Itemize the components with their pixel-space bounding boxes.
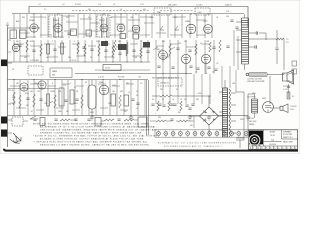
transformer T2 1st IF xyxy=(49,15,62,37)
resistor R15 xyxy=(169,44,171,56)
wire transformer leads xyxy=(219,80,236,133)
capacitor C44 xyxy=(191,104,194,106)
svg-text:20: 20 xyxy=(136,95,138,97)
svg-text:OSC: OSC xyxy=(198,12,203,14)
lamp P2 xyxy=(164,132,168,136)
transformer T3 2nd IF xyxy=(97,15,110,37)
svg-text:RESISTORS 1/2 WATT UNLESS NOTE: RESISTORS 1/2 WATT UNLESS NOTED. CAPACIT… xyxy=(40,144,150,147)
coil L3 end dot xyxy=(246,73,249,76)
capacitor C16 xyxy=(176,48,179,50)
trimmer box TC3 xyxy=(120,34,126,39)
capacitor C12 xyxy=(104,50,107,52)
svg-text:.02: .02 xyxy=(128,92,130,94)
wire jogs top band xyxy=(20,16,206,37)
lamp P12 xyxy=(237,132,241,136)
coil L3 horizontal winding xyxy=(249,73,267,76)
capacitor C23 xyxy=(131,99,134,101)
lamp P6 xyxy=(193,132,197,136)
svg-text:12A8 GT: 12A8 GT xyxy=(225,4,232,7)
lamp P3 xyxy=(171,132,175,136)
capacitor C14 xyxy=(132,50,135,52)
resistor R42 xyxy=(180,101,182,111)
svg-text:R-17 1 MEG: R-17 1 MEG xyxy=(30,60,40,62)
svg-text:680: 680 xyxy=(162,41,165,43)
bottom strip box right xyxy=(138,117,147,127)
svg-text:100: 100 xyxy=(190,125,193,127)
svg-text:X: X xyxy=(291,148,292,150)
wire power top xyxy=(152,95,211,97)
capacitor C1 xyxy=(18,45,21,47)
lamp P4 xyxy=(178,132,182,136)
svg-text:.005: .005 xyxy=(37,91,40,93)
capacitor C9 xyxy=(32,50,35,52)
svg-text:.05: .05 xyxy=(216,63,218,65)
wire heater bus xyxy=(12,13,244,15)
resistor R32 boxed xyxy=(40,118,45,126)
svg-text:V. COIL: V. COIL xyxy=(283,89,288,91)
capacitor C19 xyxy=(39,99,42,101)
svg-text:.05: .05 xyxy=(172,99,174,101)
dark component block C xyxy=(101,41,108,46)
capacitor C10 xyxy=(53,49,56,51)
trimmer box TC4 xyxy=(133,34,139,39)
wire verticals to power section xyxy=(222,66,236,92)
loop coil box L1b xyxy=(20,30,27,39)
trimmer box TC2 xyxy=(86,30,92,36)
svg-text:* ALIGN IF 455 KC. TRIMMERS FO: * ALIGN IF 455 KC. TRIMMERS FOR MAX OUTP… xyxy=(33,135,158,138)
line cord xyxy=(236,92,244,148)
svg-text:.01: .01 xyxy=(216,17,218,19)
resistor R16 xyxy=(195,44,197,55)
svg-text:.005: .005 xyxy=(58,91,61,93)
svg-text:150: 150 xyxy=(112,91,115,93)
wire bottom right drops xyxy=(236,116,248,139)
wire vertical drops mid row xyxy=(14,40,214,62)
capacitor C48 xyxy=(207,67,210,69)
svg-text:C-22 .05: C-22 .05 xyxy=(98,77,104,79)
ground lug bottom xyxy=(1,130,7,137)
wire coil leads xyxy=(236,14,245,70)
loop coil box L1a xyxy=(10,30,17,39)
resistor R7 xyxy=(40,44,42,56)
svg-text:USE ISOLATION TRANSFORMER. REA: USE ISOLATION TRANSFORMER. READINGS TAKE… xyxy=(40,128,157,131)
wire y70 run xyxy=(95,69,150,71)
svg-text:.01: .01 xyxy=(120,9,122,11)
wire lug stubs xyxy=(7,63,12,133)
capacitor C11 xyxy=(90,49,93,51)
capacitor C25 xyxy=(188,108,191,110)
wave switch box xyxy=(50,68,72,78)
capacitor C49 xyxy=(188,50,191,52)
lamp P1 xyxy=(157,132,161,136)
dial cord dashed run xyxy=(72,10,194,12)
capacitor C43 xyxy=(185,105,188,107)
svg-text:.002: .002 xyxy=(232,83,235,85)
svg-text:.05: .05 xyxy=(195,72,197,74)
tube V1 12SA7 xyxy=(30,24,38,32)
tube V9 xyxy=(159,51,168,60)
capacitor C47 xyxy=(189,66,192,68)
capacitor C3 xyxy=(82,47,85,49)
resistor R19 xyxy=(33,94,35,107)
resistor R9 xyxy=(61,43,64,54)
svg-text:TO SPKR: TO SPKR xyxy=(290,106,297,108)
dark component block B xyxy=(143,42,150,48)
svg-text:H: H xyxy=(266,148,267,150)
svg-text:.05: .05 xyxy=(46,57,48,59)
diode D3 xyxy=(203,119,206,122)
capacitor C53 xyxy=(235,27,238,29)
capacitor C28 xyxy=(170,119,173,121)
lamp P10 xyxy=(222,132,226,136)
selector box mid xyxy=(103,65,121,71)
svg-text:L-12 FIELD 450 OHM: L-12 FIELD 450 OHM xyxy=(247,78,262,80)
resistor R22 boxed tall xyxy=(59,88,64,106)
capacitor C24 xyxy=(136,103,139,105)
wire main lower bus xyxy=(8,115,249,117)
resistor R11 xyxy=(98,44,100,56)
wire heater chain rails xyxy=(155,130,248,137)
svg-text:USE EXACT DUPLICATE: USE EXACT DUPLICATE xyxy=(247,80,265,83)
capacitor C31 xyxy=(54,119,57,121)
wire bridge leads xyxy=(190,96,223,136)
svg-text:.05: .05 xyxy=(136,91,138,93)
svg-text:680: 680 xyxy=(12,97,15,99)
svg-text:100: 100 xyxy=(16,83,19,85)
capacitor C52 xyxy=(230,20,233,22)
svg-text:SILVERTONE: SILVERTONE xyxy=(252,145,261,147)
wire coil L3 lead xyxy=(267,74,268,76)
svg-text:40-20: 40-20 xyxy=(90,112,94,114)
resistor R26 xyxy=(119,95,121,108)
gang capacitor xyxy=(160,26,179,30)
capacitor C40 xyxy=(151,104,154,106)
title block dividers xyxy=(248,130,297,146)
resistor R18 xyxy=(19,95,21,108)
terminal strip marks xyxy=(292,61,297,66)
tube V7 12K7 xyxy=(204,25,213,34)
resistor R17 xyxy=(13,92,15,105)
notes arrow doodle xyxy=(10,133,21,143)
svg-text:SPEAKER CONNECTED. VOLTAGES MA: SPEAKER CONNECTED. VOLTAGES MAY VARY WID… xyxy=(40,131,143,134)
resistor R13 xyxy=(126,44,128,56)
capacitor C26 xyxy=(158,104,161,106)
svg-text:220: 220 xyxy=(160,89,163,91)
speaker PM xyxy=(283,70,294,84)
wire bottom margin bar xyxy=(4,149,298,151)
capacitor C17 xyxy=(212,47,215,49)
wire field coil right xyxy=(288,84,290,98)
resistor R4 xyxy=(126,42,128,54)
resistor R24 xyxy=(81,95,83,108)
tube V8 xyxy=(12,44,20,52)
svg-text:1 MEG: 1 MEG xyxy=(50,91,56,93)
ground symbols on lower bus xyxy=(90,116,250,121)
capacitor C45 xyxy=(157,66,160,68)
svg-text:FOR SEARS ROEBUCK AND CO. CHA: FOR SEARS ROEBUCK AND CO. CHASSIS 101.5 xyxy=(164,145,222,148)
capacitor C7 xyxy=(248,46,255,48)
svg-text:ALL 0.1: ALL 0.1 xyxy=(249,117,254,120)
wire right upper xyxy=(276,58,278,64)
svg-text:C-15 .05: C-15 .05 xyxy=(70,60,76,62)
transformer T4 secondary bumps xyxy=(229,89,230,137)
tube V11 xyxy=(201,54,210,63)
svg-text:AT GANG CLOSED POSITION. OUTPU: AT GANG CLOSED POSITION. OUTPUT READINGS… xyxy=(40,138,145,141)
tube V6 12A8 xyxy=(186,24,196,34)
svg-text:.05: .05 xyxy=(44,17,46,19)
svg-text:1.5: 1.5 xyxy=(44,9,46,11)
svg-text:100: 100 xyxy=(16,41,19,43)
diode D4 xyxy=(213,119,216,122)
capacitor C29 xyxy=(287,86,290,88)
svg-text:SCHEMATIC NO. 257.1234 SIX TU: SCHEMATIC NO. 257.1234 SIX TUBE SUPERHET… xyxy=(158,142,237,145)
resistor R20 boxed xyxy=(47,94,50,106)
capacitor C6 padder xyxy=(248,33,266,40)
svg-text:.1: .1 xyxy=(70,83,71,85)
ground lug top xyxy=(1,60,7,67)
capacitor C18 xyxy=(26,98,29,100)
capacitor C21 xyxy=(75,99,78,101)
svg-text:220: 220 xyxy=(66,17,69,19)
dark component block A xyxy=(118,44,127,50)
capacitor C32 xyxy=(74,119,77,121)
wire lamp feed xyxy=(150,116,194,129)
capacitor C8 xyxy=(275,48,278,50)
wire x277 xyxy=(276,30,278,47)
tube V3 12SQ7 xyxy=(100,24,108,32)
svg-text:40: 40 xyxy=(257,148,259,150)
resistor R30 xyxy=(178,120,188,122)
capacitor C5 xyxy=(226,46,229,48)
resistor R25 boxed xyxy=(111,94,116,106)
resistor R31 boxed xyxy=(287,92,290,99)
switch SW1 xyxy=(30,116,38,119)
tube V12 xyxy=(20,83,28,91)
tube V10 xyxy=(181,54,190,63)
wire drop right xyxy=(283,39,285,70)
svg-text:5: 5 xyxy=(52,41,53,43)
left boundary ticks xyxy=(8,40,12,104)
switch contacts xyxy=(153,47,175,52)
tube V13 xyxy=(38,81,46,89)
resistor R6 xyxy=(248,38,276,40)
wire bottom strip joins xyxy=(23,120,138,121)
wire speaker feed xyxy=(268,73,284,75)
rectifier bridge diamond xyxy=(200,107,219,125)
resistor R14 xyxy=(140,48,142,58)
resistor R29 xyxy=(156,120,166,122)
tube V15 rectifier xyxy=(263,102,274,113)
wire mid bus xyxy=(75,73,192,75)
capacitor C42 xyxy=(173,104,176,106)
svg-text:.25: .25 xyxy=(140,41,142,43)
wire AVC bus xyxy=(8,61,151,63)
svg-text:115V AC-DC: 115V AC-DC xyxy=(160,82,170,85)
svg-text:MFD 200V: MFD 200V xyxy=(249,121,257,123)
capacitor C33 xyxy=(87,119,90,121)
resistor R12 xyxy=(112,45,114,57)
resistor R34 boxed xyxy=(95,118,101,127)
svg-text:T-6 OUTPUT: T-6 OUTPUT xyxy=(247,97,256,99)
svg-text:T-2 OSC: T-2 OSC xyxy=(196,5,203,7)
resistor R10 xyxy=(84,44,86,56)
tube V2 12SK7 xyxy=(54,24,62,32)
wire vertical risers mid-right xyxy=(156,74,210,104)
transformer T5 output xyxy=(252,99,258,113)
trimmer box TC1 xyxy=(71,29,77,36)
capacitor C34 xyxy=(117,119,120,121)
tube V4 xyxy=(117,24,125,32)
svg-text:C-8: C-8 xyxy=(98,4,101,6)
dashed label box power xyxy=(158,78,182,86)
svg-text:40: 40 xyxy=(85,82,87,84)
wire jogs audio band xyxy=(10,84,134,110)
svg-text:.002: .002 xyxy=(138,77,141,79)
wire field drop xyxy=(269,76,271,104)
resistor R43 xyxy=(209,42,211,52)
svg-text:.002: .002 xyxy=(134,57,137,59)
lamp P9 xyxy=(215,132,219,136)
resistor R5 xyxy=(219,40,221,52)
svg-text:R-9 470K: R-9 470K xyxy=(118,77,125,79)
wire coil risers xyxy=(234,30,238,70)
lamp P8 xyxy=(208,132,212,136)
transformer T4 power xyxy=(223,88,228,137)
capacitor C20 xyxy=(64,100,67,102)
svg-text:.1: .1 xyxy=(74,41,75,43)
svg-text:10: 10 xyxy=(88,17,90,19)
lamp P13 xyxy=(244,132,248,136)
svg-text:DIAL LIGHT: DIAL LIGHT xyxy=(168,4,178,7)
resistor R36 xyxy=(124,119,134,121)
dial lamp box xyxy=(154,8,171,15)
wire to output tube xyxy=(270,107,280,109)
svg-text:RADIO CORP.: RADIO CORP. xyxy=(283,141,294,144)
svg-text:10: 10 xyxy=(74,87,76,89)
wire B+ top bus xyxy=(29,7,248,29)
svg-text:L-4: L-4 xyxy=(62,4,64,6)
capacitor C30 xyxy=(33,119,36,121)
wire left boundary xyxy=(7,28,9,147)
resistor R27 boxed xyxy=(124,95,129,106)
svg-text:PAPER: PAPER xyxy=(249,123,255,126)
wire vertical drops top row xyxy=(14,14,212,38)
capacitor C41 xyxy=(162,105,165,107)
wire vertical drops lower-left xyxy=(14,80,145,115)
wire tube drops xyxy=(163,60,206,74)
wire audio sub bus xyxy=(8,88,59,90)
wire output leads xyxy=(248,94,255,118)
svg-text:+: + xyxy=(166,113,167,115)
speaker plug horn xyxy=(280,104,288,113)
capacitor C46 xyxy=(171,67,174,69)
svg-text:12SK7: 12SK7 xyxy=(53,20,60,22)
svg-text:C-2: C-2 xyxy=(38,4,41,6)
lamp P5 xyxy=(186,132,190,136)
svg-text:R-2 47K: R-2 47K xyxy=(75,4,82,6)
svg-text:220: 220 xyxy=(68,57,71,59)
dial cord dashed drops xyxy=(80,11,140,16)
svg-text:.05: .05 xyxy=(136,108,138,110)
svg-text:.02: .02 xyxy=(11,90,13,92)
resistor R3 xyxy=(114,40,116,52)
lamp P11 xyxy=(230,132,234,136)
svg-text:WAVE: WAVE xyxy=(52,70,58,73)
svg-text:6T-10: 6T-10 xyxy=(270,135,274,137)
svg-text:20: 20 xyxy=(162,99,164,101)
svg-text:.005: .005 xyxy=(206,41,209,43)
ground lug mid xyxy=(1,117,7,124)
svg-text:* 4.7: * 4.7 xyxy=(30,111,33,113)
capacitor C50 xyxy=(196,68,199,70)
tube V5 xyxy=(132,25,140,33)
logo black square xyxy=(249,131,263,147)
wire audio stage bus xyxy=(8,79,149,81)
capacitor C15 xyxy=(146,51,149,53)
svg-text:+: + xyxy=(155,113,156,115)
svg-text:12SA7: 12SA7 xyxy=(29,19,36,22)
svg-text:NO. 257.1234: NO. 257.1234 xyxy=(283,134,292,136)
svg-text:10: 10 xyxy=(176,89,178,91)
svg-text:12SQ7: 12SQ7 xyxy=(99,20,106,22)
svg-text:40: 40 xyxy=(152,99,154,101)
scan edge xyxy=(0,0,300,154)
capacitor C4 xyxy=(144,45,147,47)
capacitor C51 xyxy=(214,69,217,71)
svg-text:.01: .01 xyxy=(180,99,182,101)
title bottom cells xyxy=(253,146,295,149)
svg-text:455 KC: 455 KC xyxy=(105,68,111,70)
push-button box xyxy=(28,66,43,75)
svg-text:VOL: VOL xyxy=(63,85,66,87)
svg-text:C-30: C-30 xyxy=(226,11,229,13)
electrolytic can C22 xyxy=(88,85,96,109)
wire jogs mid band xyxy=(14,44,210,57)
capacitor C27 xyxy=(170,104,173,106)
svg-text:AN AVERAGE OF 117 V. 60 CYCLE: AN AVERAGE OF 117 V. 60 CYCLE SUPPLY. VO… xyxy=(40,125,157,128)
resistor R1 xyxy=(26,40,28,52)
oscillator box xyxy=(195,8,210,15)
resistor R2 xyxy=(77,42,79,54)
svg-text:250: 250 xyxy=(88,9,91,11)
bottom strip dashed box xyxy=(12,117,23,126)
svg-text:12A5: 12A5 xyxy=(108,102,112,105)
svg-text:.25: .25 xyxy=(140,83,142,85)
svg-text:.002: .002 xyxy=(44,103,47,105)
resistor R41 xyxy=(168,101,170,111)
wire mid connectors down xyxy=(156,62,214,74)
resistor R33 xyxy=(60,119,70,121)
svg-text:.01: .01 xyxy=(200,43,202,45)
volume control R21 xyxy=(54,95,56,108)
resistor R40 xyxy=(157,101,159,111)
svg-text:** REPLACE ELECTROLYTICS IN PA: ** REPLACE ELECTROLYTICS IN PAIRS ONLY A… xyxy=(33,141,148,144)
svg-text:.05: .05 xyxy=(113,4,115,6)
resistor R28 xyxy=(160,95,172,97)
svg-text:3-30: 3-30 xyxy=(226,16,229,18)
lamp P7 xyxy=(200,132,204,136)
svg-text:5: 5 xyxy=(52,83,53,85)
capacitor C2 xyxy=(67,33,70,35)
svg-text:SHEET 1 OF 1: SHEET 1 OF 1 xyxy=(283,137,293,139)
svg-text:MODEL: MODEL xyxy=(270,132,276,134)
svg-text:220: 220 xyxy=(212,72,215,74)
diode D2 xyxy=(212,111,215,114)
tube V14 output xyxy=(99,85,109,95)
antenna xyxy=(6,23,9,28)
svg-text:NOTE: ALL VOLTAGES READ FROM S: NOTE: ALL VOLTAGES READ FROM SOCKET TERM… xyxy=(33,122,150,125)
resistor R23 boxed xyxy=(70,90,74,104)
